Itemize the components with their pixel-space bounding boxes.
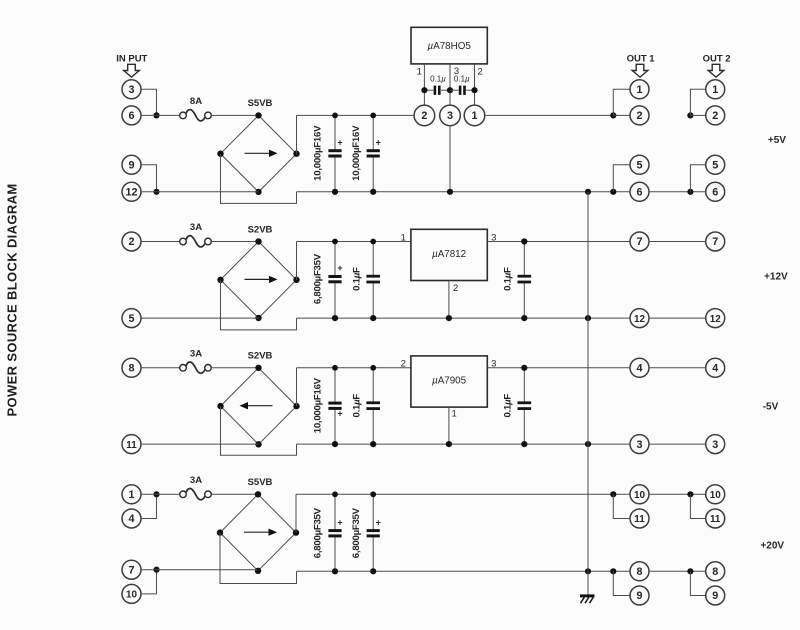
- svg-text:OUT 1: OUT 1: [627, 54, 656, 65]
- input pin 12: [122, 182, 141, 201]
- svg-text:IN PUT: IN PUT: [116, 54, 147, 65]
- svg-text:6,800µF35V: 6,800µF35V: [313, 507, 324, 558]
- U1 pin 1 lead: [423, 64, 425, 105]
- svg-text:10,000µF16V: 10,000µF16V: [351, 125, 362, 181]
- svg-text:2: 2: [636, 110, 642, 122]
- bridge rectifier S2VB (section 3): [217, 351, 299, 448]
- svg-text:12: 12: [710, 314, 721, 325]
- wire pin11 to bridge bottom: [141, 443, 259, 445]
- OUT2 pin 5: [706, 155, 725, 174]
- OUT1 pin 6: [630, 182, 649, 201]
- wire junction to bridge bottom: [141, 191, 259, 193]
- wire stub to OUT2 pin 11: [690, 494, 705, 518]
- input pin 11: [122, 435, 141, 454]
- svg-text:2: 2: [712, 110, 718, 122]
- svg-text:3A: 3A: [190, 348, 202, 359]
- OUT1 pin 11: [630, 509, 649, 528]
- svg-text:5: 5: [128, 313, 134, 325]
- svg-text:4: 4: [636, 363, 642, 375]
- wire fuse to bridge: [211, 114, 258, 116]
- svg-text:2: 2: [401, 359, 406, 370]
- svg-text:11: 11: [126, 440, 137, 451]
- input pin 2: [122, 232, 141, 251]
- wire junction to bridge bottom: [141, 569, 258, 571]
- wire stub to OUT2 pin 5: [690, 165, 705, 192]
- wire bridge right vertex riser: [296, 368, 298, 406]
- junction pins 9-12: [153, 189, 159, 195]
- svg-text:3A: 3A: [190, 475, 202, 486]
- junction +20V at OUT1: [610, 491, 616, 497]
- svg-text:POWER SOURCE BLOCK DIAGRAM: POWER SOURCE BLOCK DIAGRAM: [4, 184, 19, 417]
- wire bridge right vertex riser: [296, 242, 298, 280]
- wire stub to OUT1 pin 5: [613, 165, 630, 192]
- OUT2 pin 2: [706, 106, 725, 125]
- svg-text:7: 7: [636, 236, 642, 248]
- svg-text:1: 1: [636, 84, 642, 96]
- svg-text:-5V: -5V: [763, 402, 779, 413]
- wire bridge positive bypass: [221, 406, 297, 455]
- input pin 9: [122, 155, 141, 174]
- wire section1 ground rail: [297, 191, 631, 193]
- junction U3 pin1: [446, 441, 452, 447]
- wire stub to OUT1 pin 1: [613, 89, 630, 115]
- wire fuse to bridge: [211, 367, 258, 369]
- wire junction to fuse: [141, 493, 180, 495]
- capacitor 6,800µF35V C3: [313, 239, 343, 321]
- svg-text:2: 2: [453, 283, 458, 294]
- svg-text:10,000µF16V: 10,000µF16V: [313, 125, 324, 181]
- svg-text:0.1µF: 0.1µF: [351, 267, 362, 291]
- svg-text:7: 7: [128, 564, 134, 576]
- OUT 2 header arrow: [703, 54, 731, 77]
- wire +12V output rail: [487, 241, 630, 243]
- svg-text:+20V: +20V: [760, 541, 784, 552]
- capacitor 6,800µF35V C9: [313, 491, 343, 574]
- capacitor 6,800µF35V C10: [351, 491, 381, 574]
- fuse F3 3A: [180, 348, 212, 373]
- svg-text:9: 9: [712, 590, 718, 602]
- junction output cap: [521, 238, 527, 244]
- svg-text:+12V: +12V: [764, 271, 788, 282]
- svg-text:1: 1: [712, 84, 718, 96]
- input pin 1: [122, 485, 141, 504]
- junction OUT2 +5V: [687, 112, 693, 118]
- svg-text:0.1µ: 0.1µ: [430, 75, 446, 84]
- ground symbol: [580, 571, 595, 603]
- junction cap C3 ground: [332, 315, 338, 321]
- U1 terminal circle 1: [464, 105, 485, 126]
- junction cap C9: [332, 568, 338, 574]
- capacitor 10,000µF16V C2: [351, 113, 381, 195]
- OUT1 pin 3: [630, 435, 649, 454]
- wire pin2 to fuse: [141, 241, 180, 243]
- svg-text:6: 6: [128, 110, 134, 122]
- svg-text:8: 8: [128, 363, 134, 375]
- OUT1 pin 8: [630, 562, 649, 581]
- wire section3 ground rail: [297, 443, 631, 445]
- svg-text:+: +: [337, 137, 342, 147]
- junction ground bus bottom: [585, 568, 591, 574]
- svg-text:12: 12: [634, 314, 645, 325]
- svg-text:10: 10: [710, 490, 721, 501]
- wire stub to OUT1 pin 11: [613, 494, 630, 518]
- OUT2 pin 11: [706, 509, 725, 528]
- wire fuse to bridge: [211, 241, 258, 243]
- svg-text:+: +: [376, 517, 381, 527]
- input pin 8: [122, 358, 141, 377]
- wire OUT1-6 to OUT2: [649, 191, 706, 193]
- svg-text:11: 11: [710, 514, 721, 525]
- wire fuse to bridge: [211, 493, 258, 495]
- svg-text:12: 12: [125, 187, 137, 199]
- svg-text:8: 8: [712, 566, 718, 578]
- junction cap C2 ground: [370, 189, 376, 195]
- capacitor 10,000µF16V C1: [313, 113, 343, 195]
- wire OUT1-10 to OUT2: [649, 493, 706, 495]
- bridge rectifier S5VB (section 1): [217, 98, 299, 195]
- fuse F2 3A: [180, 222, 212, 247]
- junction OUT2 +20V: [687, 491, 693, 497]
- svg-text:11: 11: [634, 514, 645, 525]
- fuse F1 8A: [180, 96, 212, 121]
- wire section2 ground rail: [297, 317, 631, 319]
- junction pins 7-10: [153, 567, 159, 573]
- wire +5V unregulated rail: [297, 114, 415, 116]
- OUT1 pin 4: [630, 358, 649, 377]
- wire pin8 to fuse: [141, 367, 180, 369]
- U3 pin labels 2 and 3: [401, 359, 497, 370]
- junction cap C4 ground: [370, 315, 376, 321]
- svg-text:6,800µF35V: 6,800µF35V: [313, 253, 324, 304]
- svg-text:S5VB: S5VB: [248, 98, 273, 109]
- svg-text:10,000µF16V: 10,000µF16V: [313, 377, 324, 433]
- svg-text:0.1µF: 0.1µF: [351, 394, 362, 418]
- OUT2 pin 6: [706, 182, 725, 201]
- capacitor 0.1µF C7: [351, 365, 380, 447]
- OUT2 pin 3: [706, 435, 725, 454]
- svg-text:6,800µF35V: 6,800µF35V: [351, 507, 362, 558]
- svg-text:+: +: [337, 263, 342, 273]
- junction ground bus top: [585, 189, 591, 195]
- U2 pin labels 1 and 3: [401, 232, 497, 243]
- svg-text:4: 4: [128, 513, 134, 525]
- svg-text:1: 1: [401, 232, 406, 243]
- svg-text:0.1µF: 0.1µF: [503, 267, 514, 291]
- OUT1 pin 7: [630, 232, 649, 251]
- junction pins 3-6: [153, 112, 159, 118]
- OUT2 pin 7: [706, 232, 725, 251]
- svg-text:µA78HO5: µA78HO5: [428, 41, 472, 52]
- wire +20V rail: [296, 493, 630, 495]
- junction +5V at OUT 1: [610, 112, 616, 118]
- wire OUT1-4 to OUT2-4: [649, 367, 706, 369]
- svg-text:2: 2: [128, 236, 134, 248]
- svg-text:8A: 8A: [190, 96, 202, 107]
- wire stub to OUT1 pin 9: [613, 571, 630, 595]
- wire OUT1-3 to OUT2-3: [649, 443, 706, 445]
- input pin 10: [122, 584, 141, 603]
- junction cap C7: [370, 441, 376, 447]
- svg-text:1: 1: [128, 489, 134, 501]
- junction OUT1 ground: [610, 189, 616, 195]
- U1 pin 2 lead: [474, 64, 476, 105]
- svg-text:0.1µF: 0.1µF: [503, 394, 514, 418]
- wire bridge right vertex riser: [296, 115, 298, 153]
- svg-text:10: 10: [126, 590, 137, 601]
- capacitor 0.1µF C5: [503, 239, 532, 321]
- svg-text:3: 3: [712, 439, 718, 451]
- junction cap C8: [521, 441, 527, 447]
- svg-text:1: 1: [471, 110, 477, 122]
- wire OUT1-8 to OUT2: [649, 570, 706, 572]
- input pin 4: [122, 509, 141, 528]
- wire U1 common to ground rail: [449, 126, 451, 192]
- wire junction to fuse: [141, 114, 180, 116]
- junction cap C10: [370, 568, 376, 574]
- svg-text:8: 8: [636, 566, 642, 578]
- svg-text:+: +: [337, 409, 342, 419]
- svg-text:0.1µ: 0.1µ: [454, 75, 470, 84]
- U1 terminal circle 3: [440, 105, 461, 126]
- OUT2 pin 10: [706, 485, 725, 504]
- wire bridge right vertex riser: [295, 494, 297, 532]
- wire ground bus vertical: [587, 192, 589, 572]
- regulator U2 µA7812: [411, 229, 487, 280]
- svg-text:µA7905: µA7905: [432, 376, 467, 387]
- OUT2 pin 9: [706, 586, 725, 605]
- svg-text:7: 7: [712, 236, 718, 248]
- OUT2 pin 12: [706, 309, 725, 328]
- OUT1 pin 1: [630, 80, 649, 99]
- junction ground bus: [585, 315, 591, 321]
- junction U1 common: [447, 189, 453, 195]
- input pin 6: [122, 106, 141, 125]
- svg-text:µA7812: µA7812: [432, 249, 466, 260]
- capacitor 0.1µF C8: [503, 365, 532, 447]
- svg-text:3: 3: [447, 110, 453, 122]
- capacitor 0.1µ (U1 pins 3-2): [450, 75, 478, 95]
- svg-text:S2VB: S2VB: [248, 224, 273, 235]
- wire stub to OUT2 pin 9: [690, 571, 705, 595]
- wire -5V unregulated rail: [297, 367, 412, 369]
- wire -5V output rail: [487, 367, 630, 369]
- svg-text:+: +: [376, 137, 381, 147]
- svg-text:1: 1: [452, 409, 457, 420]
- junction OUT1 ground: [610, 568, 616, 574]
- OUT2 pin 8: [706, 562, 725, 581]
- bridge rectifier S2VB (section 2): [217, 224, 299, 321]
- OUT1 pin 12: [630, 309, 649, 328]
- capacitor 0.1µ (U1 pins 1-3): [421, 75, 453, 95]
- svg-text:3A: 3A: [190, 222, 202, 233]
- svg-text:3: 3: [128, 84, 134, 96]
- wire pin10 to junction: [141, 570, 157, 594]
- wire bridge negative bypass: [220, 532, 297, 583]
- svg-text:5: 5: [636, 160, 642, 172]
- svg-text:9: 9: [128, 160, 134, 172]
- wire to OUT1 pin 2: [613, 114, 630, 116]
- OUT1 pin 2: [630, 106, 649, 125]
- U1 pin 3 lead: [449, 64, 451, 105]
- svg-text:3: 3: [636, 439, 642, 451]
- input pin 7: [122, 560, 141, 579]
- OUT2 pin 4: [706, 358, 725, 377]
- junction U2 pin2: [446, 315, 452, 321]
- capacitor 0.1µF C4: [351, 239, 380, 321]
- wire +12V unregulated rail: [297, 241, 412, 243]
- svg-text:6: 6: [636, 187, 642, 199]
- svg-text:OUT 2: OUT 2: [703, 54, 731, 65]
- OUT1 pin 5: [630, 155, 649, 174]
- wire section4 ground rail: [297, 570, 631, 572]
- svg-text:2: 2: [477, 66, 482, 77]
- wire pin3 to junction: [141, 89, 157, 115]
- svg-text:+5V: +5V: [768, 135, 786, 146]
- junction OUT2 ground: [687, 568, 693, 574]
- junction cap C6: [332, 441, 338, 447]
- svg-text:4: 4: [712, 363, 718, 375]
- regulator U3 µA7905: [411, 356, 487, 407]
- U3 pin 1 lead: [448, 407, 450, 444]
- svg-text:9: 9: [636, 590, 642, 602]
- junction OUT2 ground: [687, 189, 693, 195]
- wire pin5 to bridge bottom: [141, 317, 259, 319]
- wire stub to OUT2 pin 1: [690, 89, 705, 115]
- OUT1 pin 9: [630, 586, 649, 605]
- fuse F4 3A: [180, 475, 212, 500]
- svg-text:S5VB: S5VB: [248, 477, 273, 488]
- wire to OUT2 pin 2: [690, 114, 705, 116]
- svg-text:+: +: [337, 517, 342, 527]
- junction output cap: [521, 365, 527, 371]
- wire pin4 to junction: [141, 494, 157, 518]
- svg-text:2: 2: [421, 110, 427, 122]
- U2 pin 2 lead: [448, 281, 450, 319]
- svg-text:10: 10: [634, 490, 645, 501]
- regulator U1 µA78HO5: [411, 27, 487, 64]
- wire bridge negative bypass: [221, 154, 297, 204]
- bridge rectifier S5VB (section 4): [217, 477, 299, 574]
- svg-text:1: 1: [417, 66, 422, 77]
- wire OUT1-7 to OUT2-7: [649, 241, 706, 243]
- capacitor 10,000µF16V C6: [313, 365, 343, 447]
- junction pins 1-4: [153, 491, 159, 497]
- IN PUT header arrow: [116, 54, 147, 77]
- OUT1 pin 10: [630, 485, 649, 504]
- OUT 1 header arrow: [627, 54, 656, 77]
- wire OUT1-12 to OUT2-12: [649, 317, 706, 319]
- U1 pin number labels: [417, 66, 483, 77]
- wire bridge negative bypass: [221, 280, 297, 330]
- junction cap C1 ground: [332, 189, 338, 195]
- U1 terminal circle 2: [414, 105, 435, 126]
- wire pin9 to junction: [141, 165, 157, 192]
- svg-text:S2VB: S2VB: [248, 351, 273, 362]
- input pin 3: [122, 80, 141, 99]
- junction cap C5 ground: [521, 315, 527, 321]
- wire +5V output rail: [485, 114, 614, 116]
- OUT2 pin 1: [706, 80, 725, 99]
- input pin 5: [122, 309, 141, 328]
- svg-text:6: 6: [712, 187, 718, 199]
- junction ground bus: [585, 441, 591, 447]
- svg-text:5: 5: [712, 160, 718, 172]
